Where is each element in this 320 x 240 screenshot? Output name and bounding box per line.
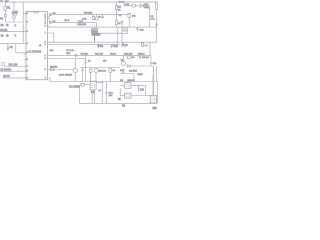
node dot wire2-rail xyxy=(96,27,97,28)
wire x117.8 drop xyxy=(117,27,119,44)
capacitor C15 xyxy=(121,20,123,27)
svg-text:2k2: 2k2 xyxy=(132,16,136,18)
svg-text:C11: C11 xyxy=(153,63,158,65)
svg-text:2: 2 xyxy=(27,21,28,23)
component U3 xyxy=(90,81,96,90)
node dot bus-31.6 xyxy=(23,30,24,33)
wire U3 bottom pins xyxy=(92,90,95,103)
svg-text:1k: 1k xyxy=(98,17,101,19)
svg-text:7: 7 xyxy=(45,32,46,34)
svg-text:C16: C16 xyxy=(140,90,145,92)
node U5 inner mark xyxy=(126,94,129,97)
connector P2 xyxy=(80,83,85,86)
capacitor C16 xyxy=(97,45,99,49)
svg-text:6: 6 xyxy=(27,59,28,61)
svg-text:L x: L x xyxy=(145,45,149,47)
wire rail y58.5 xyxy=(47,58,85,60)
inductor zigzag xyxy=(122,72,126,74)
svg-text:C2: C2 xyxy=(10,47,14,49)
wire pin stub r1 xyxy=(47,16,49,26)
svg-text:R9: R9 xyxy=(118,7,122,9)
node U4 inner mark xyxy=(126,84,129,88)
capacitor C14 xyxy=(105,82,107,104)
svg-text:IC2 AT555: IC2 AT555 xyxy=(69,86,80,89)
svg-text:R1: R1 xyxy=(7,8,11,10)
svg-text:IC AT2149: IC AT2149 xyxy=(29,50,42,54)
svg-text:1: 1 xyxy=(27,13,28,15)
svg-text:1: 1 xyxy=(45,55,46,57)
node dot 53.8,42.2 xyxy=(53,42,54,43)
svg-text:R12 1k: R12 1k xyxy=(99,70,107,72)
wire Q4 emitter xyxy=(74,73,76,82)
wire U5 right xyxy=(131,95,150,97)
resistor R9 feeder xyxy=(115,2,117,14)
resistor hang 142.5 xyxy=(142,41,144,44)
node U6 inner mark xyxy=(151,96,154,101)
svg-text:C9 4n7: C9 4n7 xyxy=(142,57,150,59)
wire U3 top to rail xyxy=(96,82,103,84)
component U4 box A xyxy=(125,83,132,89)
node dot 138.7 xyxy=(138,85,139,86)
component box pair xyxy=(122,28,128,30)
wire x102.2 drop xyxy=(101,82,103,103)
node top-left junction xyxy=(14,2,15,3)
svg-text:3x2: 3x2 xyxy=(50,50,54,52)
svg-text:9: 9 xyxy=(27,77,28,79)
svg-text:1k: 1k xyxy=(113,70,116,72)
wire y66 xyxy=(126,65,154,67)
wire top right row xyxy=(124,2,149,27)
svg-text:2k: 2k xyxy=(132,57,135,59)
wire Q3 emitter xyxy=(95,72,97,81)
svg-text:100p: 100p xyxy=(144,7,150,9)
capacitor C17 xyxy=(113,44,115,48)
wire y73.5 jog xyxy=(120,74,134,82)
svg-text:1u: 1u xyxy=(126,45,129,47)
wire u3 to right xyxy=(102,82,104,83)
wire rail B1 y81.5 xyxy=(50,81,157,83)
resistor R16 2k xyxy=(128,13,130,14)
resistor R13 xyxy=(109,68,111,82)
svg-text:A 47k: A 47k xyxy=(12,11,19,14)
wire rail y42.2 xyxy=(47,41,157,43)
svg-text:1u: 1u xyxy=(88,61,91,63)
svg-text:R2: R2 xyxy=(1,25,5,27)
svg-text:R6 1.2M: R6 1.2M xyxy=(9,64,18,66)
wire U4 right xyxy=(131,85,145,87)
diode D2 xyxy=(128,65,131,68)
wire crystal link xyxy=(48,14,50,22)
svg-text:6: 6 xyxy=(45,25,46,27)
wire left-edge drop xyxy=(4,2,6,22)
wire U2 out y33.2 xyxy=(97,33,122,42)
capacitor C10 xyxy=(81,68,83,82)
svg-text:R5 100k: R5 100k xyxy=(84,13,93,15)
capacitor C4m xyxy=(101,14,104,18)
svg-text:1u: 1u xyxy=(99,90,102,92)
wire U2 stubs xyxy=(93,27,95,41)
wire y69.5 xyxy=(47,69,73,71)
svg-text:C13: C13 xyxy=(140,30,145,32)
svg-text:4k7: 4k7 xyxy=(103,61,107,63)
wire rail y67.5 xyxy=(80,67,120,69)
svg-text:B2 6V: B2 6V xyxy=(3,76,10,78)
node dot 75.2,58.5 xyxy=(75,58,76,59)
capacitor C16 xyxy=(97,44,99,48)
wire x145.4 link xyxy=(144,86,146,96)
resistor R8 xyxy=(50,68,54,70)
component U5 box B xyxy=(125,93,132,98)
component box pair 2 xyxy=(122,31,128,34)
wire bus left of IC xyxy=(22,2,24,44)
wire long rail y14.4 xyxy=(52,13,128,15)
svg-text:8: 8 xyxy=(27,71,28,73)
wire y71.2 xyxy=(0,70,26,72)
capacitor C17 xyxy=(111,45,113,49)
svg-text:1k: 1k xyxy=(6,25,9,27)
resistor R10 xyxy=(132,5,136,7)
wire rail y55.4 xyxy=(47,54,151,56)
transistor Q1 xyxy=(96,14,98,17)
wire U4 top xyxy=(127,82,129,83)
capacitor C18 xyxy=(122,42,124,46)
svg-text:R2 2: R2 2 xyxy=(65,20,70,22)
wire y77.9 xyxy=(3,77,26,79)
wire Q4 collector xyxy=(74,59,76,69)
svg-text:R4: R4 xyxy=(1,35,5,37)
capacitor C1 xyxy=(14,24,16,27)
svg-text:B1: B1 xyxy=(118,99,122,101)
wire U6 top xyxy=(152,75,154,95)
node U3 inner mark xyxy=(91,83,94,89)
diode D1 xyxy=(140,4,143,8)
wire U4 left xyxy=(120,85,124,87)
svg-text:B1: B1 xyxy=(0,19,4,21)
wire right bus bottom xyxy=(156,82,158,104)
wire x150 drop xyxy=(149,42,151,55)
capacitor C13 xyxy=(136,27,138,31)
transistor Q5 xyxy=(122,62,126,66)
svg-text:P+: P+ xyxy=(0,0,4,3)
resistor R15 right edge xyxy=(156,3,158,10)
wire bus stub xyxy=(23,13,26,15)
svg-text:7: 7 xyxy=(27,66,28,68)
wire feeder x120.2 xyxy=(119,88,121,96)
transistor Q3 xyxy=(94,68,98,72)
wire Q5 collector xyxy=(123,55,125,61)
svg-text:T3: T3 xyxy=(119,15,122,17)
connector J1 xyxy=(2,63,4,66)
resistor R17 feeder2 xyxy=(115,14,117,27)
resistor R11a xyxy=(93,14,95,16)
svg-text:4: 4 xyxy=(27,43,28,45)
wire pin y33 L-drop xyxy=(47,33,54,42)
wire top rail xyxy=(5,1,157,3)
wire U2 to rail1 xyxy=(94,33,96,42)
svg-text:10u: 10u xyxy=(109,95,113,97)
svg-text:5: 5 xyxy=(27,52,28,54)
capacitor C5 circle xyxy=(49,13,52,16)
component U2 4069 xyxy=(91,29,97,32)
svg-text:2: 2 xyxy=(45,58,46,60)
svg-text:x1: x1 xyxy=(39,45,41,47)
node dot 102.7 xyxy=(102,82,103,83)
wire pin r3 long xyxy=(52,22,97,27)
wire y22 xyxy=(5,21,23,23)
op-amp U1 IC body xyxy=(26,12,47,80)
capacitor C3 to ground xyxy=(7,44,9,50)
node dot 90.6,14.4 xyxy=(90,14,91,15)
svg-text:1k: 1k xyxy=(118,9,121,11)
wire y52.8 tee xyxy=(16,44,26,53)
node circle on rail xyxy=(75,54,77,56)
component U2 4069 box xyxy=(92,28,97,33)
wire x138.7 drop xyxy=(138,86,140,93)
capacitor C19 xyxy=(139,55,141,59)
component box on rail right xyxy=(127,56,131,58)
capacitor C2 xyxy=(14,34,16,37)
svg-text:Q 4.7: Q 4.7 xyxy=(78,21,84,23)
svg-text:B2: B2 xyxy=(122,106,126,108)
wire y43.6 xyxy=(0,43,26,45)
node dot 124,2 xyxy=(124,2,125,3)
meter M1 circle xyxy=(13,16,16,19)
capacitor C6 circle xyxy=(49,21,52,24)
transistor Q4 xyxy=(73,68,77,72)
resistor R2 xyxy=(4,15,6,18)
wire right edge bus xyxy=(156,10,158,43)
capacitor C11 xyxy=(150,63,152,67)
svg-text:C9: C9 xyxy=(150,16,154,18)
node dot 102.7,14.4 xyxy=(102,14,103,15)
wire x151 drop xyxy=(150,55,152,61)
svg-text:1k: 1k xyxy=(6,35,9,37)
svg-text:3: 3 xyxy=(27,31,28,33)
inductor L1 xyxy=(12,13,16,15)
node dot 85.5,67.5 xyxy=(85,67,86,68)
capacitor right edge xyxy=(155,24,158,25)
wire rail y44.5 xyxy=(47,44,120,46)
svg-text:220k 1%: 220k 1% xyxy=(78,24,87,26)
wire L1 drop xyxy=(13,2,15,22)
wire U5 left xyxy=(120,95,124,97)
svg-text:9: 9 xyxy=(45,44,46,46)
svg-text:1k: 1k xyxy=(118,23,121,25)
svg-text:25V: 25V xyxy=(66,53,70,55)
svg-text:3: 3 xyxy=(45,69,46,71)
wire plug ground drop xyxy=(79,86,81,103)
node junction 14,22 xyxy=(14,22,15,23)
svg-text:MC4069: MC4069 xyxy=(92,35,101,37)
svg-text:4: 4 xyxy=(45,77,46,79)
resistor R11 xyxy=(90,68,92,82)
wire plug to IC3 xyxy=(85,84,91,86)
node dot cap-rail xyxy=(106,103,107,104)
svg-text:B52: B52 xyxy=(153,108,158,110)
wire rail B2 xyxy=(80,102,158,104)
svg-text:4.7u: 4.7u xyxy=(150,19,155,21)
capacitor C6b on x85.5 xyxy=(84,55,86,81)
capacitor C18 xyxy=(121,44,123,48)
resistor R1 xyxy=(4,6,7,10)
wire y31.6 xyxy=(0,31,26,33)
wire pin stubs left xyxy=(24,54,26,60)
wire x153.5 to box C xyxy=(153,66,155,95)
node IC notch xyxy=(34,12,38,13)
svg-text:IC2 555: IC2 555 xyxy=(129,71,137,73)
wire y66.5 xyxy=(4,66,26,68)
wire pin bottom stub xyxy=(47,78,50,82)
wire right bus lower xyxy=(156,66,158,82)
wire mid rail y27.1 xyxy=(47,26,157,28)
svg-text:1N60: 1N60 xyxy=(138,74,144,76)
component U6 box C xyxy=(150,95,156,103)
svg-text:0.1% 47k/1W: 0.1% 47k/1W xyxy=(59,74,73,76)
node dot 54,58.5 xyxy=(54,58,55,59)
